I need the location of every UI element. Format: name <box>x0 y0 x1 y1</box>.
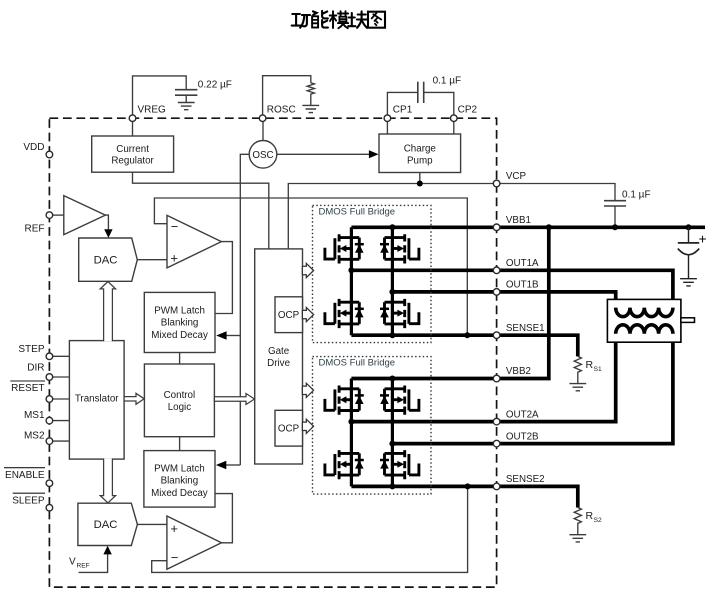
svg-text:Translator: Translator <box>75 393 119 404</box>
svg-text:+: + <box>170 250 178 265</box>
svg-text:+: + <box>699 231 707 246</box>
junction (bridge2 SENSE2) <box>389 483 395 489</box>
wire cap C2 to CP2 <box>424 92 454 115</box>
svg-text:Gate: Gate <box>268 346 290 357</box>
transistor Q5 (bridge 2 high-side left) <box>325 386 364 415</box>
ground (Rs2) <box>569 535 586 542</box>
capacitor C4 bulk electrolytic <box>688 227 690 243</box>
wire OUT2B to motor <box>392 334 673 444</box>
svg-text:Pump: Pump <box>407 155 433 166</box>
svg-text:MS2: MS2 <box>24 430 45 441</box>
svg-text:MS1: MS1 <box>24 410 45 421</box>
block Gate Drive <box>255 249 303 464</box>
block Current Regulator <box>92 136 174 172</box>
wire OSC to blanking (vertical rail) <box>240 154 250 465</box>
wire ROSC to resistor <box>263 76 311 115</box>
amplifier (REF) <box>64 196 106 235</box>
svg-text:ROSC: ROSC <box>267 105 296 116</box>
pin ROSC <box>259 115 266 122</box>
pin STEP <box>46 353 53 360</box>
wire CP2 to Charge Pump box <box>453 122 455 134</box>
junction (bridge1 OUT1B) <box>389 289 395 295</box>
block PWM Latch 2 <box>144 451 215 508</box>
pin MS1 <box>46 417 53 424</box>
pin VBB2 <box>493 375 500 382</box>
pin VREG <box>129 115 136 122</box>
transistor Q8 (bridge 2 low-side right) <box>380 450 419 479</box>
wire blanking arrow into PWM latch 2 <box>226 464 240 466</box>
gate drive arrow to bridge1 top <box>302 263 313 277</box>
wire SENSE2 to Rs2 <box>351 486 577 507</box>
wire PWM latch 1 to Control Logic <box>179 353 181 365</box>
pin OUT2B <box>493 440 500 447</box>
svg-text:Control: Control <box>164 390 196 401</box>
transistor Q2 (bridge 1 high-side right) <box>380 234 419 263</box>
block Charge Pump <box>379 134 461 173</box>
bus arrow Translator to Control Logic <box>124 393 144 404</box>
svg-text:CP1: CP1 <box>393 105 413 116</box>
wire RESET to Translator <box>53 398 70 400</box>
svg-text:VREG: VREG <box>138 105 167 116</box>
junction (VBB1/bulk cap) <box>686 224 692 230</box>
transistor Q1 (bridge 1 high-side left) <box>325 234 364 263</box>
junction (VBB1/C3) <box>612 224 618 230</box>
svg-text:Drive: Drive <box>267 358 290 369</box>
bus arrow Translator to DAC1 <box>100 282 115 342</box>
block PWM Latch 1 <box>144 292 215 352</box>
svg-text:VBB2: VBB2 <box>506 366 531 377</box>
junction (VBB1/VBB2 tie) <box>546 224 552 230</box>
wire comparator 2 output to PWM latch 2 <box>215 494 232 543</box>
svg-text:OCP: OCP <box>278 424 300 435</box>
svg-text:0.1 µF: 0.1 µF <box>622 189 651 200</box>
svg-text:Blanking: Blanking <box>161 318 199 329</box>
wire DAC1 output to comparator 1 plus <box>137 259 167 261</box>
svg-text:R: R <box>586 359 594 371</box>
ground (Rs1) <box>569 384 586 391</box>
pin SENSE2 <box>493 483 500 490</box>
pin CP2 <box>451 115 458 122</box>
title 功能模块图 <box>292 11 385 28</box>
capacitor C3 0.1uF (VCP-VBB) <box>604 201 626 226</box>
svg-text:VCP: VCP <box>506 171 527 182</box>
capacitor C2 0.1uF (CP1-CP2) <box>418 82 424 103</box>
wire DIR to Translator <box>53 376 70 378</box>
gate drive arrow to bridge2 top <box>302 383 313 397</box>
block Translator <box>69 341 124 460</box>
bus arrow Control Logic to Gate Drive <box>214 394 254 405</box>
block Control Logic <box>144 364 214 437</box>
svg-text:STEP: STEP <box>18 344 44 355</box>
wire OSC to Charge Pump (arrow) <box>277 153 370 155</box>
junction (SENSE2 feedback) <box>465 483 471 489</box>
bus arrow Translator to DAC2 <box>100 459 115 503</box>
gate drive arrow from OCP1 <box>302 308 313 322</box>
wire VREF input to DAC2 (arrow) <box>79 554 108 572</box>
svg-text:PWM Latch: PWM Latch <box>154 305 205 316</box>
wire VCP pin to cap C3 <box>500 184 615 201</box>
resistor ROSC (external) <box>307 83 314 106</box>
svg-text:Regulator: Regulator <box>111 156 154 167</box>
svg-text:OUT1B: OUT1B <box>506 280 539 291</box>
svg-text:DAC: DAC <box>94 255 118 267</box>
svg-text:−: − <box>171 550 179 565</box>
svg-text:OUT1A: OUT1A <box>506 258 539 269</box>
pin OUT2A <box>493 418 500 425</box>
wire VBB2 rail (joins VBB1) <box>351 227 548 378</box>
svg-text:+: + <box>170 521 178 536</box>
capacitor C1 0.22uF <box>175 90 197 103</box>
wire MS2 to Translator <box>53 440 70 442</box>
wire blanking arrow into PWM latch 1 <box>226 335 240 337</box>
wire VREG to bypass cap C1 <box>133 76 187 115</box>
svg-text:CP2: CP2 <box>458 105 478 116</box>
ground (C1) <box>178 103 195 110</box>
svg-text:S2: S2 <box>594 517 602 524</box>
svg-text:OUT2B: OUT2B <box>506 431 539 442</box>
svg-text:VDD: VDD <box>23 142 44 153</box>
oscillator OSC <box>249 141 277 169</box>
svg-text:OUT2A: OUT2A <box>506 409 539 420</box>
pin REF <box>46 212 53 219</box>
stepper motor body <box>607 299 681 342</box>
wire Current Regulator to Gate Drive <box>133 172 269 249</box>
svg-text:Blanking: Blanking <box>161 476 199 487</box>
svg-text:V: V <box>69 557 76 568</box>
svg-text:0.1 µF: 0.1 µF <box>433 75 462 86</box>
junction (charge pump / VCP) <box>417 181 423 187</box>
svg-text:Mixed Decay: Mixed Decay <box>151 488 208 499</box>
wire OSC to ROSC pin <box>262 122 264 142</box>
wire OUT2A to motor <box>351 334 615 422</box>
block OCP 1 <box>275 297 303 333</box>
svg-text:Mixed Decay: Mixed Decay <box>151 330 208 341</box>
wire Control Logic to PWM latch 2 <box>179 437 181 451</box>
svg-text:Charge: Charge <box>404 144 437 155</box>
svg-text:VBB1: VBB1 <box>506 215 531 226</box>
junction (bridge1 VBB1) <box>389 224 395 230</box>
svg-text:OCP: OCP <box>278 310 300 321</box>
svg-text:SENSE2: SENSE2 <box>506 474 545 485</box>
svg-text:0.22 µF: 0.22 µF <box>198 80 232 91</box>
pin VBB1 <box>493 224 500 231</box>
resistor Rs1 <box>574 356 581 383</box>
ground (ROSC resistor) <box>302 105 319 112</box>
DMOS Full Bridge 2 (dotted box) <box>313 357 432 495</box>
wire STEP to Translator <box>53 355 70 357</box>
junction (bridge2 OUT2B) <box>389 441 395 447</box>
pin SLEEP <box>46 504 53 511</box>
pin VDD <box>46 151 53 158</box>
wire OUT1A to motor <box>351 270 673 307</box>
wire VREG to Current Regulator <box>132 122 134 136</box>
bridge 1 right leg <box>391 227 394 335</box>
gate drive arrow from OCP2 <box>302 419 313 433</box>
svg-text:Logic: Logic <box>168 402 192 413</box>
svg-text:R: R <box>586 510 594 522</box>
wire REF pin to amplifier <box>53 214 64 216</box>
resistor Rs2 <box>574 508 581 535</box>
transistor Q4 (bridge 1 low-side right) <box>380 299 419 328</box>
svg-text:SENSE1: SENSE1 <box>506 323 545 334</box>
comparator 2 <box>167 516 222 569</box>
wire comparator 1 output to PWM latch 1 <box>215 242 232 314</box>
svg-text:S1: S1 <box>594 366 602 373</box>
svg-text:PWM Latch: PWM Latch <box>154 463 205 474</box>
DAC 2 <box>78 503 137 545</box>
comparator 1 <box>167 215 221 268</box>
svg-text:DMOS Full Bridge: DMOS Full Bridge <box>319 206 396 217</box>
IC boundary (dashed) <box>49 118 496 587</box>
wire CP1 to cap C2 <box>387 92 417 115</box>
wire Charge Pump output to VCP net <box>419 173 421 184</box>
transistor Q7 (bridge 2 low-side left) <box>325 450 364 479</box>
bridge 2 left leg <box>350 379 353 487</box>
ground (C4) <box>680 279 697 286</box>
pin RESET <box>46 396 53 403</box>
svg-text:ENABLE: ENABLE <box>5 470 45 481</box>
bridge 1 left leg <box>350 227 353 335</box>
svg-text:DAC: DAC <box>94 519 118 531</box>
wire VCP net (pin to Gate Drive) <box>288 184 493 249</box>
junction (bridge2 OUT2A) <box>348 419 354 425</box>
motor winding 1 <box>616 308 673 317</box>
svg-text:Current: Current <box>116 144 149 155</box>
motor shaft <box>681 318 695 323</box>
pin DIR <box>46 374 53 381</box>
junction (bridge2 VBB2) <box>389 376 395 382</box>
pin VCP <box>493 180 500 187</box>
wire MS1 to Translator <box>53 420 70 422</box>
pin ENABLE <box>46 480 53 487</box>
wire SENSE1 to Rs1 <box>351 335 577 356</box>
svg-text:REF: REF <box>25 224 45 235</box>
svg-text:RESET: RESET <box>11 383 44 394</box>
block OCP 2 <box>275 410 303 446</box>
DAC 1 <box>79 238 138 281</box>
DMOS Full Bridge 1 (dotted box) <box>313 205 432 342</box>
wire SENSE2 feedback to comparator 2 minus <box>152 486 468 572</box>
pin SENSE1 <box>493 332 500 339</box>
transistor Q3 (bridge 1 low-side left) <box>325 299 364 328</box>
wire amplifier to DAC1 (arrow) <box>105 215 108 229</box>
pin OUT1B <box>493 289 500 296</box>
svg-text:−: − <box>171 219 179 234</box>
svg-text:SLEEP: SLEEP <box>12 495 45 506</box>
wire DAC2 output to comparator 2 plus <box>137 523 167 525</box>
svg-text:DIR: DIR <box>27 362 44 373</box>
wire VBB1 rail <box>351 225 705 229</box>
wire OUT1B to motor <box>392 292 615 308</box>
wire CP1 to Charge Pump box <box>386 122 388 134</box>
junction (bridge1 OUT1A) <box>348 267 354 273</box>
bridge 2 right leg <box>391 379 394 487</box>
pin OUT1A <box>493 267 500 274</box>
motor winding 2 <box>616 325 673 334</box>
wire SENSE1 feedback to comparator 1 minus <box>154 198 467 335</box>
svg-text:REF: REF <box>77 563 90 570</box>
junction (bridge1 SENSE1) <box>389 332 395 338</box>
transistor Q6 (bridge 2 high-side right) <box>380 386 419 415</box>
pin MS2 <box>46 438 53 445</box>
svg-text:OSC: OSC <box>252 150 273 161</box>
junction (SENSE1 feedback) <box>464 332 470 338</box>
svg-text:DMOS Full Bridge: DMOS Full Bridge <box>319 358 396 369</box>
pin CP1 <box>384 115 391 122</box>
